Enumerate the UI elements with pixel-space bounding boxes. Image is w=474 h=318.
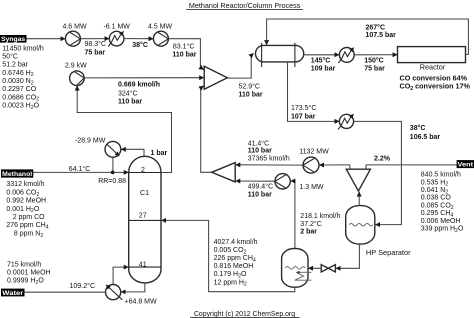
node Syngas feed label box	[0, 35, 27, 43]
feed-effluent exchanger drum	[256, 43, 304, 67]
LP flash drum	[282, 249, 308, 288]
valve V1	[321, 265, 335, 272]
svg-text:37365 kmol/h: 37365 kmol/h	[248, 155, 290, 162]
svg-text:C1: C1	[140, 190, 149, 197]
svg-text:0.816 MeOH: 0.816 MeOH	[214, 263, 254, 270]
svg-text:145°C: 145°C	[311, 56, 331, 64]
svg-text:1132 MW: 1132 MW	[299, 148, 329, 155]
wire splitter to K4	[319, 164, 350, 166]
svg-text:1 bar: 1 bar	[151, 150, 168, 157]
junction dot distillate tee	[111, 171, 115, 175]
svg-text:75 bar: 75 bar	[85, 49, 106, 56]
reactor R1	[398, 47, 466, 72]
wire column overhead to condenser	[121, 149, 144, 156]
label 52.9C 110 bar	[239, 82, 263, 98]
svg-text:38°C: 38°C	[132, 41, 148, 49]
label 218.1 kmol/h 37.2C 2 bar	[300, 213, 340, 235]
svg-text:4.6 MW: 4.6 MW	[62, 23, 87, 30]
svg-text:110 bar: 110 bar	[239, 91, 263, 98]
svg-text:-28.9 MW: -28.9 MW	[75, 137, 106, 144]
svg-text:2: 2	[141, 167, 145, 174]
label 41.4C 110 bar 37365 kmol/h	[248, 139, 290, 162]
svg-text:CO2 conversion 17%: CO2 conversion 17%	[400, 82, 471, 92]
svg-text:0.669 kmol/h: 0.669 kmol/h	[118, 82, 160, 89]
svg-text:41: 41	[139, 261, 147, 268]
svg-text:83.1°C: 83.1°C	[173, 42, 194, 50]
svg-text:107 bar: 107 bar	[291, 113, 316, 120]
svg-text:-6.1 MW: -6.1 MW	[103, 23, 130, 30]
column C1 vessel	[129, 156, 161, 283]
svg-text:38°C: 38°C	[410, 124, 426, 132]
wire mixer M2 recycle up to M1	[201, 86, 212, 173]
label CO conversion	[400, 74, 471, 93]
svg-text:107.5 bar: 107.5 bar	[366, 32, 397, 39]
heat exchanger E2	[338, 48, 354, 64]
compressor K1	[65, 31, 80, 46]
svg-text:37.2°C: 37.2°C	[300, 220, 321, 228]
wire K5 to mixer M2	[236, 180, 275, 182]
label 0.669 kmol/h 324C 110 bar	[118, 82, 160, 106]
node Water label box	[1, 289, 25, 297]
mixer M1	[204, 66, 227, 89]
wire E2 to reactor	[354, 54, 397, 56]
wire K1 to E1	[80, 38, 109, 40]
wire HP separator vapor to splitter	[358, 192, 360, 206]
wire splitter to Vent	[366, 164, 457, 166]
svg-text:3312 kmol/h: 3312 kmol/h	[6, 181, 44, 188]
svg-text:Syngas: Syngas	[1, 36, 26, 43]
svg-text:2.9 kW: 2.9 kW	[65, 63, 87, 70]
svg-text:4.5 MW: 4.5 MW	[148, 23, 173, 30]
wire drum bottom to E3	[288, 62, 340, 121]
splitter S1	[346, 165, 370, 191]
svg-text:218.1 kmol/h: 218.1 kmol/h	[300, 213, 340, 220]
svg-text:840.5 kmol/h: 840.5 kmol/h	[421, 172, 461, 179]
HP separator vessel	[346, 206, 375, 245]
title	[186, 1, 303, 10]
wire condenser outlet down	[112, 157, 114, 172]
svg-text:109.2°C: 109.2°C	[69, 282, 95, 290]
label 83.1C 110 bar	[172, 42, 196, 58]
svg-text:52.9°C: 52.9°C	[239, 82, 260, 90]
copyright	[190, 311, 300, 318]
svg-text:27: 27	[139, 213, 147, 220]
Syngas stream table	[2, 45, 44, 110]
svg-text:50°C: 50°C	[2, 53, 18, 61]
svg-text:2 ppm CO: 2 ppm CO	[13, 214, 45, 221]
wire drum to E2	[304, 54, 340, 56]
wire LP drum vapor to K5	[291, 181, 295, 249]
reboiler E5	[106, 285, 123, 300]
node Vent label box	[457, 160, 474, 169]
svg-text:106.5 bar: 106.5 bar	[410, 134, 441, 141]
svg-text:Methanol: Methanol	[2, 171, 32, 178]
Vent stream table	[421, 172, 464, 234]
heat exchanger E3	[338, 114, 354, 129]
wire syngas to K1	[27, 38, 66, 40]
wire column bottoms to reboiler	[121, 283, 145, 292]
svg-text:+64.8 MW: +64.8 MW	[125, 298, 157, 305]
svg-text:75 bar: 75 bar	[364, 65, 385, 72]
svg-text:Reactor: Reactor	[420, 63, 446, 72]
node Methanol label box	[1, 169, 33, 178]
label 173.5C 107 bar	[291, 104, 316, 120]
compressor K5	[275, 174, 290, 189]
condenser E4	[105, 141, 121, 157]
label 150C 75 bar	[364, 56, 385, 72]
svg-text:715 kmol/h: 715 kmol/h	[7, 262, 41, 269]
compressor K3	[70, 71, 85, 86]
svg-text:110 bar: 110 bar	[118, 98, 142, 105]
LP liquid stream table	[214, 239, 258, 288]
wire K3 to mixer M1	[84, 77, 204, 79]
svg-text:150°C: 150°C	[364, 56, 384, 64]
svg-text:110 bar: 110 bar	[172, 51, 196, 58]
svg-text:173.5°C: 173.5°C	[291, 104, 316, 112]
svg-text:0.006 MeOH: 0.006 MeOH	[421, 218, 461, 225]
mixer M2	[212, 163, 236, 182]
label 499.4C 110 bar	[248, 183, 273, 199]
svg-text:110 bar: 110 bar	[248, 192, 272, 199]
svg-text:109 bar: 109 bar	[311, 65, 336, 72]
Methanol stream table	[6, 181, 48, 239]
wire K2 to mixer M1	[168, 39, 203, 70]
svg-text:2.2%: 2.2%	[374, 155, 391, 162]
svg-text:Copyright (c) 2012 ChemSep.org: Copyright (c) 2012 ChemSep.org	[194, 311, 295, 318]
svg-text:324°C: 324°C	[118, 89, 138, 97]
svg-text:Methanol Reactor/Column Proces: Methanol Reactor/Column Process	[189, 1, 301, 10]
svg-text:267°C: 267°C	[366, 23, 386, 31]
svg-text:51.2 bar: 51.2 bar	[2, 62, 28, 69]
wire HP separator liquid to valve	[336, 244, 360, 268]
svg-text:0.038 CO: 0.038 CO	[421, 195, 452, 202]
svg-text:Water: Water	[2, 290, 24, 297]
wire LP drum liquid to column stage 27	[161, 220, 294, 291]
wire K4 to mixer M2	[236, 164, 303, 166]
svg-text:0.0001 MeOH: 0.0001 MeOH	[7, 270, 51, 277]
LP drum heater coil	[295, 272, 312, 280]
svg-text:98.3°C: 98.3°C	[85, 40, 106, 48]
heat exchanger E1	[108, 31, 124, 46]
label 98.3C 75 bar	[85, 40, 106, 56]
svg-text:499.4°C: 499.4°C	[248, 183, 273, 191]
compressor K4	[303, 157, 319, 173]
wire M1 to feed-effluent exchanger	[228, 53, 254, 78]
wire reactor effluent recycle to drum top	[267, 19, 469, 54]
svg-text:4027.4 kmol/h: 4027.4 kmol/h	[214, 239, 258, 246]
wire column overhead vapor to K3	[77, 86, 171, 173]
svg-text:Vent: Vent	[458, 162, 474, 169]
svg-text:0.2297 CO: 0.2297 CO	[2, 86, 36, 93]
svg-text:RR=0.88: RR=0.88	[98, 178, 126, 185]
label 145C 109 bar	[311, 56, 336, 72]
svg-text:110 bar: 110 bar	[248, 147, 272, 154]
wire reflux into column	[113, 171, 128, 173]
svg-text:0.992 MeOH: 0.992 MeOH	[6, 198, 46, 205]
Water stream table	[7, 262, 51, 286]
svg-text:2 bar: 2 bar	[300, 229, 317, 236]
label 267C 107.5 bar	[366, 23, 397, 39]
wire distillate to Methanol	[33, 171, 113, 173]
svg-text:11450 kmol/h: 11450 kmol/h	[2, 45, 44, 52]
wire reboiler vapor return to stage 41	[113, 267, 128, 284]
svg-text:41.4°C: 41.4°C	[248, 139, 269, 147]
wire valve to LP drum	[308, 267, 321, 269]
svg-text:64.1°C: 64.1°C	[69, 165, 90, 173]
svg-text:1.3 MW: 1.3 MW	[299, 184, 324, 191]
compressor K2	[153, 31, 168, 46]
wire E1 to K2	[124, 38, 153, 40]
svg-text:HP Separator: HP Separator	[366, 248, 411, 257]
label 38C 106.5 bar	[410, 124, 441, 141]
wire water product to Water box	[25, 291, 106, 293]
wire E3 to HP separator	[354, 121, 402, 224]
